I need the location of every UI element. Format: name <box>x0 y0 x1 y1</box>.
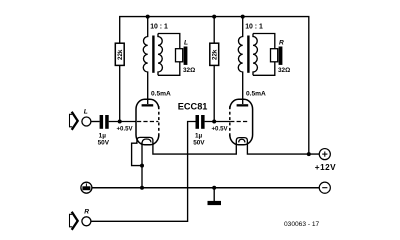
tube V1 cathode <box>137 137 153 142</box>
tube V2 envelope (right triode, left half dashed) <box>230 99 253 145</box>
resistor R2 22k (right) <box>210 43 219 65</box>
node ground rail / ground symbol <box>212 186 216 190</box>
svg-text:0.5mA: 0.5mA <box>151 90 171 97</box>
svg-text:ECC81: ECC81 <box>178 102 208 112</box>
tube V2 heater <box>239 139 245 142</box>
tube V1 heater <box>142 139 151 142</box>
resistor R1 22k (left) <box>115 43 124 65</box>
transformer T1 secondary winding <box>158 34 162 76</box>
node grid right <box>212 120 216 124</box>
node junction rail/T1 primary <box>146 15 150 19</box>
svg-text:+0.5V: +0.5V <box>212 125 229 132</box>
svg-text:50V: 50V <box>98 140 110 147</box>
svg-text:R: R <box>84 208 89 215</box>
terminal minus <box>319 182 330 193</box>
svg-text:L: L <box>84 109 88 116</box>
capacitor C2 1u (right) <box>196 115 200 129</box>
wire C2 to V2 grid <box>205 121 231 123</box>
input jack R ring <box>82 217 91 226</box>
svg-text:L: L <box>184 40 188 47</box>
transformer T1 primary winding <box>143 17 147 104</box>
speaker L earpiece <box>176 49 183 62</box>
input common jack <box>81 182 92 193</box>
wire rail to R2 top <box>213 17 215 44</box>
svg-text:10 : 1: 10 : 1 <box>245 24 263 31</box>
wire V2 heater right to +12V <box>247 142 319 154</box>
speaker R earpiece <box>271 49 278 62</box>
wire R1 bottom to grid node <box>119 65 121 121</box>
node cathode junction <box>140 164 144 168</box>
tube V2 grid (dashed) <box>230 121 247 123</box>
node +12V junction <box>307 152 311 156</box>
input jack L plug <box>72 112 78 130</box>
tube V2 anode plate <box>237 104 249 106</box>
node junction rail/T2 primary <box>241 15 245 19</box>
svg-text:1µ: 1µ <box>99 133 107 140</box>
input jack R plug <box>72 212 78 230</box>
tube V1 grid (dashed) <box>137 121 158 123</box>
svg-text:1µ: 1µ <box>195 133 203 140</box>
svg-text:22k: 22k <box>211 49 218 60</box>
tube V1 envelope (left triode, right half dashed) <box>136 99 159 145</box>
wire top +12V rail <box>120 17 309 155</box>
transformer T1 core <box>152 36 154 73</box>
terminal +12V <box>319 149 330 160</box>
svg-text:R: R <box>279 40 284 47</box>
wire T2 secondary to speaker R <box>253 34 275 49</box>
tube V1 anode plate <box>142 104 154 106</box>
capacitor C1 1u (left) <box>100 115 104 129</box>
wire ground rail <box>92 187 320 189</box>
wire V1 heater to ground rail <box>141 142 143 188</box>
wire R2 bottom to grid node <box>213 65 215 121</box>
svg-text:+0.5V: +0.5V <box>117 125 134 132</box>
svg-text:10 : 1: 10 : 1 <box>150 24 168 31</box>
wire V1 heater right to V2 heater left <box>153 142 236 154</box>
node ground rail / cathode <box>140 186 144 190</box>
transformer T2 core <box>247 36 249 73</box>
transformer T2 primary winding <box>238 17 242 104</box>
wire V1 cathode step to junction <box>132 142 142 166</box>
node grid left <box>118 120 122 124</box>
ground symbol <box>213 188 215 201</box>
svg-text:32Ω: 32Ω <box>183 67 195 74</box>
node junction rail/R2 <box>212 15 216 19</box>
svg-text:22k: 22k <box>117 49 124 60</box>
input jack L ring <box>82 117 91 126</box>
svg-text:030063 - 17: 030063 - 17 <box>284 221 320 228</box>
svg-text:32Ω: 32Ω <box>278 67 290 74</box>
svg-text:0.5mA: 0.5mA <box>246 90 266 97</box>
svg-text:+12V: +12V <box>315 163 336 172</box>
wire R input to C2 <box>91 122 196 222</box>
wire L jack to C1 <box>91 121 100 123</box>
transformer T2 secondary winding <box>253 34 257 76</box>
tube V2 cathode <box>236 138 247 143</box>
svg-text:50V: 50V <box>193 140 205 147</box>
wire T1 secondary to speaker L <box>158 34 180 49</box>
wire C1 to V1 grid <box>109 121 137 123</box>
